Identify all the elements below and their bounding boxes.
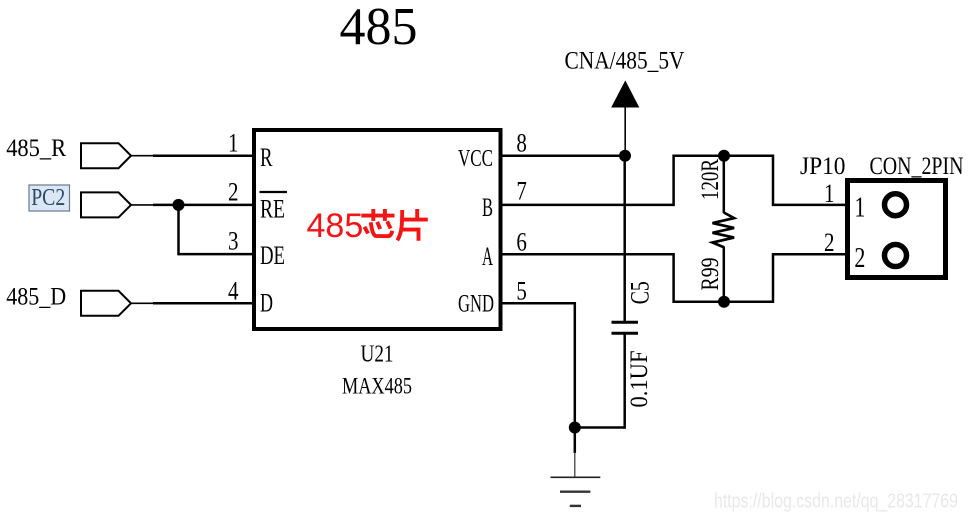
svg-text:2: 2 <box>228 178 239 207</box>
svg-text:https://blog.csdn.net/qq_28317: https://blog.csdn.net/qq_28317769 <box>714 491 958 513</box>
svg-text:A: A <box>482 242 493 271</box>
svg-text:8: 8 <box>516 128 527 157</box>
svg-text:GND: GND <box>458 290 494 317</box>
red CJK glyph 片 <box>397 209 428 241</box>
svg-text:2: 2 <box>854 242 865 274</box>
red CJK glyph 芯 <box>361 209 394 236</box>
wire pin1 <box>131 155 154 157</box>
svg-text:2: 2 <box>824 228 835 257</box>
svg-text:RE: RE <box>260 195 285 224</box>
svg-text:0.1UF: 0.1UF <box>626 351 653 408</box>
svg-text:CON_2PIN: CON_2PIN <box>870 153 964 180</box>
port 485_R pentagon <box>81 143 131 168</box>
svg-text:4: 4 <box>228 276 239 305</box>
svg-text:JP10: JP10 <box>800 153 846 180</box>
junction node RE/DE <box>173 199 185 211</box>
svg-text:1: 1 <box>824 179 835 208</box>
power stem <box>624 106 626 156</box>
capacitor C5 plates <box>612 321 639 324</box>
ground <box>574 428 577 454</box>
wire pin4 <box>131 302 154 304</box>
svg-text:120R: 120R <box>697 159 724 200</box>
svg-text:1: 1 <box>228 128 239 157</box>
svg-text:DE: DE <box>260 241 285 270</box>
wire pin6 A <box>500 254 846 301</box>
svg-text:C5: C5 <box>626 281 655 304</box>
svg-text:7: 7 <box>516 177 527 206</box>
resistor R99 <box>723 156 726 213</box>
wire pin5 GND <box>500 303 625 427</box>
svg-text:485_D: 485_D <box>6 283 66 310</box>
junction node GND <box>569 422 581 434</box>
capacitor C5 top lead <box>623 156 626 323</box>
svg-text:1: 1 <box>854 191 865 223</box>
wire junction to DE <box>179 205 254 254</box>
wire pin2 <box>131 204 154 206</box>
junction node R99 bottom <box>718 296 730 308</box>
svg-text:VCC: VCC <box>458 146 493 172</box>
junction node R99 top <box>718 150 730 162</box>
svg-text:R: R <box>260 143 273 172</box>
capacitor C5 bottom lead <box>623 333 626 428</box>
svg-text:CNA/485_5V: CNA/485_5V <box>565 47 685 74</box>
svg-text:5: 5 <box>516 276 527 305</box>
port PC2 pentagon <box>81 192 131 217</box>
svg-text:D: D <box>260 289 273 318</box>
power symbol triangle <box>612 82 639 108</box>
svg-text:485: 485 <box>340 0 418 56</box>
junction node VCC <box>619 150 631 162</box>
wire pin7 B <box>500 156 846 205</box>
svg-text:PC2: PC2 <box>31 185 65 211</box>
net label PC2 (highlight box) <box>29 185 70 211</box>
RE overline <box>260 191 288 193</box>
svg-text:U21: U21 <box>361 341 394 367</box>
svg-text:6: 6 <box>516 228 527 257</box>
connector pin 2 circle <box>885 245 907 267</box>
svg-text:3: 3 <box>228 227 239 256</box>
port 485_D pentagon <box>81 291 131 316</box>
wire pin8 VCC <box>500 154 625 157</box>
svg-text:B: B <box>482 193 493 222</box>
svg-text:R99: R99 <box>697 258 724 291</box>
svg-text:485_R: 485_R <box>6 135 66 162</box>
connector pin 1 circle <box>885 194 907 216</box>
connector JP10 box <box>848 181 946 278</box>
svg-text:485: 485 <box>307 207 364 245</box>
op-amp U21 MAX485 IC box <box>254 130 501 329</box>
svg-text:MAX485: MAX485 <box>342 373 412 398</box>
